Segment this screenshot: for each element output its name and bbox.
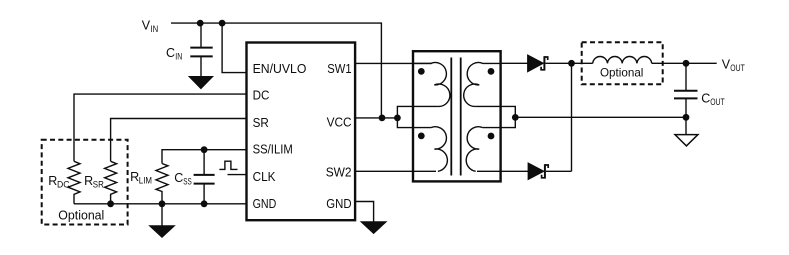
op-amp U1 push-pull driver IC box: [247, 43, 356, 221]
junction rectifier output: [568, 60, 575, 67]
svg-text:DC: DC: [253, 89, 270, 103]
transformer secondary winding bottom: [466, 127, 482, 172]
wire CSS top: [203, 150, 205, 175]
capacitor COUT: [674, 91, 725, 107]
svg-text:SS/ILIM: SS/ILIM: [253, 143, 293, 157]
svg-text:V: V: [142, 18, 151, 32]
diode D2 schottky: [528, 163, 548, 180]
svg-text:C: C: [174, 171, 183, 185]
wire CSS bottom: [203, 184, 205, 204]
junction VOUT node: [683, 60, 690, 67]
winding phase dot primary bottom: [418, 133, 425, 140]
wire VCC: [355, 117, 397, 119]
svg-text:IN: IN: [175, 52, 182, 62]
svg-text:R: R: [130, 170, 139, 184]
wire GND right pin: [355, 202, 374, 223]
junction RSR-GND: [107, 200, 114, 207]
wire SR: [111, 119, 247, 162]
svg-text:R: R: [48, 174, 57, 188]
svg-text:CLK: CLK: [253, 170, 277, 184]
ground under CIN: [189, 77, 213, 89]
capacitor CIN: [166, 46, 213, 62]
ground output (open triangle): [675, 135, 698, 146]
wire primary center tap step: [397, 106, 438, 127]
wire secondary bottom out: [477, 170, 528, 172]
svg-text:Optional: Optional: [600, 66, 643, 80]
transformer primary winding bottom: [431, 127, 447, 172]
svg-text:OUT: OUT: [730, 63, 745, 73]
junction secondary tap: [512, 114, 519, 121]
wire SS/ILIM: [162, 150, 247, 164]
wire SW2: [355, 170, 436, 172]
svg-text:SR: SR: [253, 116, 269, 130]
inductor L1: [593, 57, 652, 64]
svg-text:VCC: VCC: [327, 116, 352, 130]
wire CIN branch: [200, 23, 202, 47]
svg-text:GND: GND: [253, 197, 277, 211]
transformer core lines: [451, 58, 460, 176]
winding phase dot secondary bottom: [488, 133, 495, 140]
diode D1 schottky: [528, 55, 548, 72]
transformer secondary winding top: [464, 63, 501, 107]
junction VIN-CIN: [197, 20, 204, 27]
wire L to VOUT: [652, 62, 717, 64]
wire rectifier join vertical: [571, 63, 573, 171]
wire secondary center tap step: [476, 106, 516, 127]
wire CLK stub: [228, 174, 247, 176]
junction CSS-GND: [201, 200, 208, 207]
dashed optional box right: [582, 42, 663, 84]
svg-text:LIM: LIM: [139, 176, 152, 186]
transformer T1 box: [413, 51, 501, 181]
svg-text:SW2: SW2: [326, 165, 352, 179]
svg-text:SS: SS: [183, 177, 192, 187]
svg-text:C: C: [701, 92, 710, 106]
resistor RSR: [84, 161, 117, 204]
node VIN label: [142, 18, 158, 34]
clock pulse symbol: [219, 161, 237, 169]
ground under RLIM: [150, 226, 175, 238]
wire VIN rail: [171, 22, 381, 24]
svg-text:R: R: [84, 174, 93, 188]
svg-text:OUT: OUT: [710, 97, 725, 107]
wire VIN rail drop to VCC: [380, 22, 382, 118]
junction COUT-return: [683, 114, 690, 121]
wire RLIM ground drop: [161, 204, 163, 226]
wire DC: [74, 94, 247, 161]
svg-text:IN: IN: [151, 24, 159, 34]
transformer primary winding top: [413, 63, 450, 107]
wire D2 to join: [546, 170, 572, 172]
ground right of IC: [361, 222, 386, 234]
wire CIN to ground: [200, 56, 202, 77]
resistor RLIM: [130, 164, 168, 204]
junction VCC-centertap: [394, 115, 401, 122]
wire D1 to L: [545, 62, 592, 64]
wire output ground drop: [685, 117, 687, 134]
wire secondary top out: [501, 62, 528, 64]
svg-text:SW1: SW1: [327, 62, 351, 76]
node VOUT label: [722, 57, 745, 73]
dashed optional box left: [42, 140, 128, 225]
junction RLIM-GND: [159, 200, 166, 207]
winding phase dot primary top: [418, 68, 425, 75]
wire secondary return: [515, 116, 686, 118]
svg-text:Optional: Optional: [58, 208, 104, 222]
wire COUT top: [685, 63, 687, 90]
resistor RDC: [48, 161, 80, 204]
junction VIN-VCC: [379, 115, 386, 122]
svg-text:GND: GND: [326, 197, 351, 211]
wire COUT bottom: [685, 98, 687, 117]
wire GND rail: [74, 203, 247, 205]
svg-text:C: C: [166, 46, 175, 60]
svg-text:EN/UVLO: EN/UVLO: [253, 62, 307, 76]
junction SS-CSS: [201, 146, 208, 153]
wire EN/UVLO branch: [222, 23, 246, 73]
capacitor CSS: [174, 171, 214, 187]
winding phase dot secondary top: [488, 68, 495, 75]
wire SW1: [355, 62, 432, 64]
junction VIN-EN: [219, 20, 226, 27]
svg-text:DC: DC: [57, 180, 70, 190]
svg-text:SR: SR: [93, 180, 104, 190]
